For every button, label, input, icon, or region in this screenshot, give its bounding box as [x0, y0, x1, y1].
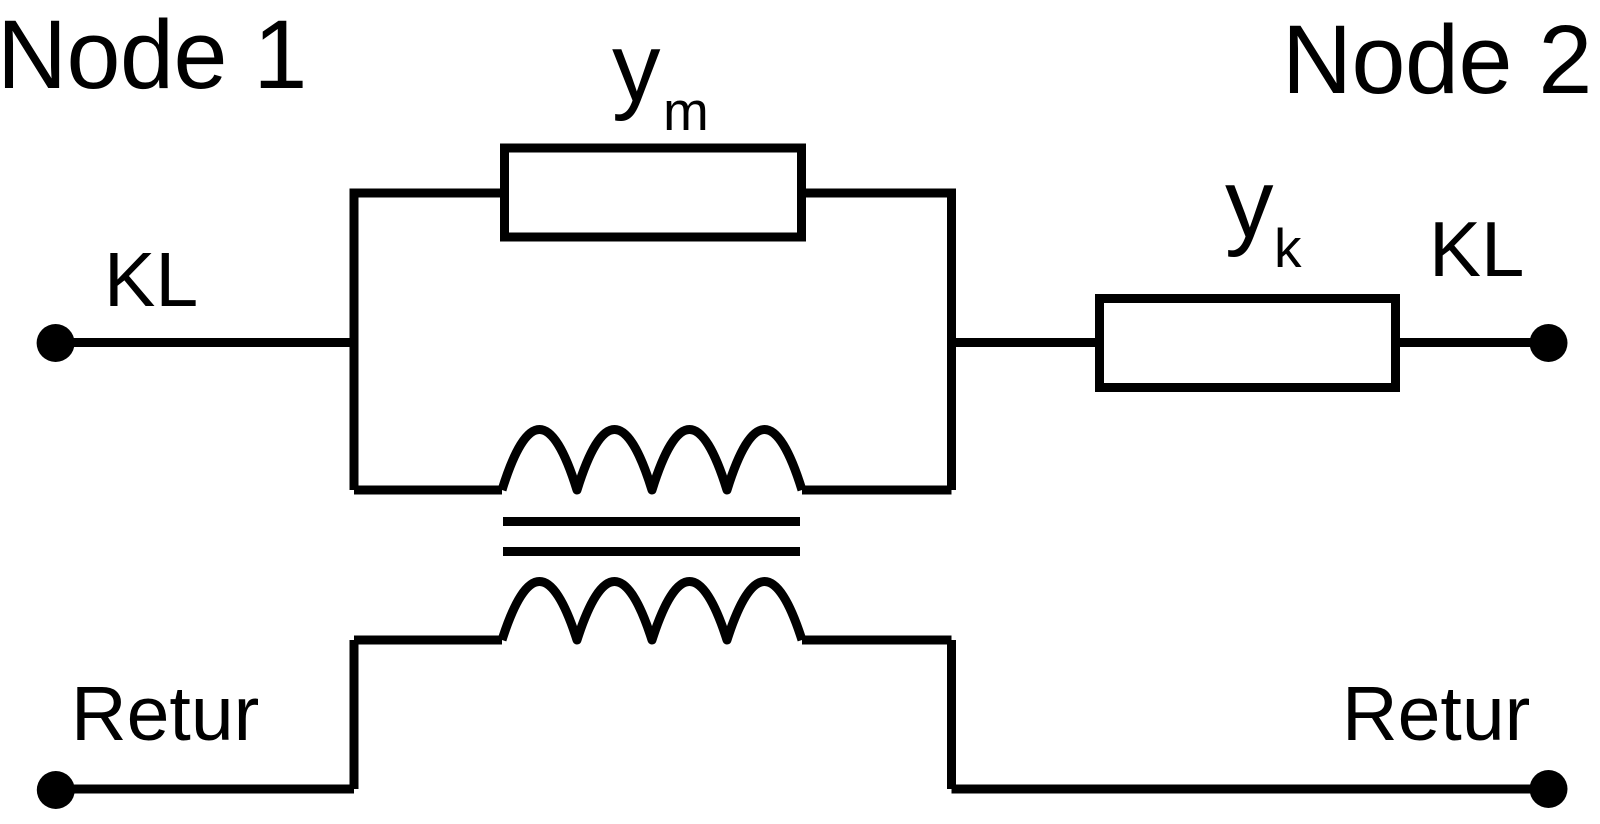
svg-text:y: y — [612, 13, 661, 122]
svg-text:Node 1: Node 1 — [0, 0, 307, 109]
svg-text:KL: KL — [104, 237, 198, 323]
svg-text:y: y — [1225, 149, 1274, 258]
svg-text:Retur: Retur — [71, 671, 259, 757]
svg-text:Node 2: Node 2 — [1282, 5, 1592, 114]
svg-text:KL: KL — [1429, 205, 1524, 293]
svg-text:Retur: Retur — [1342, 671, 1530, 757]
svg-text:k: k — [1274, 217, 1302, 279]
svg-text:m: m — [663, 80, 709, 142]
